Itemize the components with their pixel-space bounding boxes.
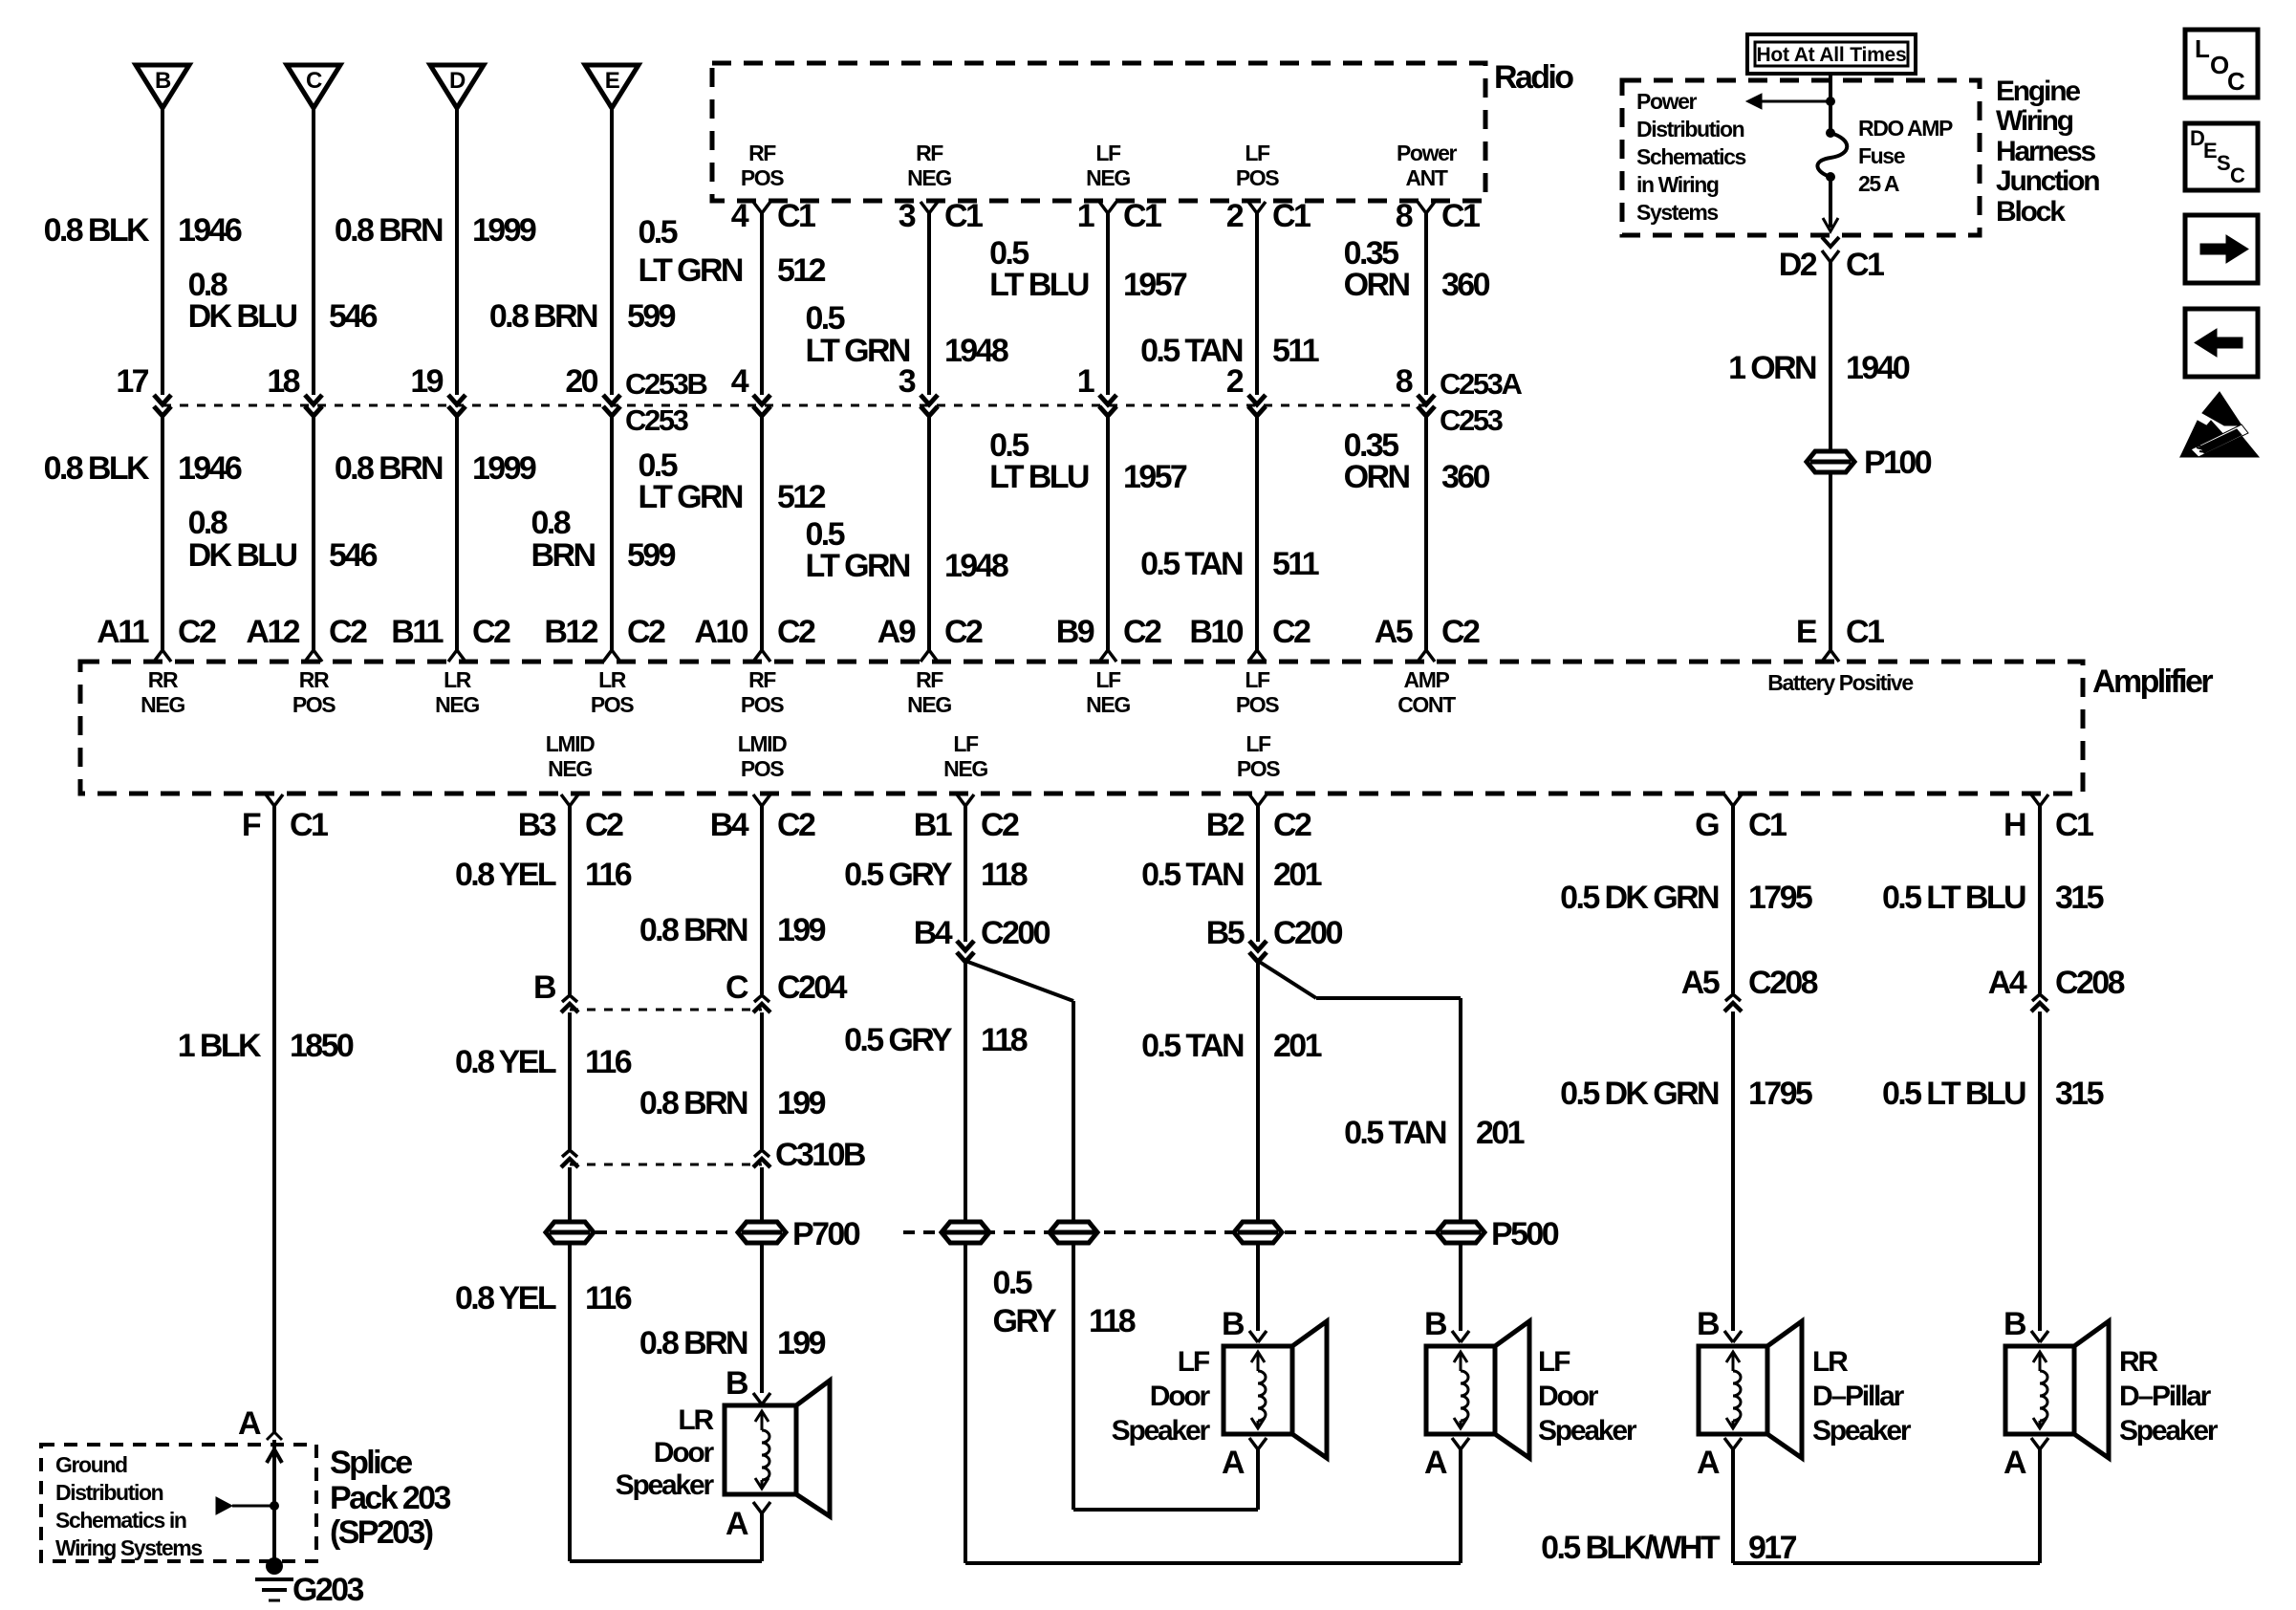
amplifier pin label AMP CONT [1397, 667, 1456, 717]
svg-text:0.8 BRN: 0.8 BRN [639, 1325, 747, 1361]
amplifier box [80, 662, 2083, 794]
svg-text:LT GRN: LT GRN [805, 548, 909, 584]
svg-text:POS: POS [292, 692, 336, 717]
wire label 0.5 TAN 511 [1140, 546, 1319, 582]
speaker label LF Door Speaker [1538, 1346, 1637, 1447]
svg-text:Speaker: Speaker [2119, 1415, 2219, 1447]
svg-text:NEG: NEG [141, 692, 184, 717]
antenna connector B [136, 65, 189, 108]
amplifier pin label LMID POS [738, 731, 787, 781]
wire label 0.5 TAN 201 [1141, 1028, 1321, 1064]
svg-text:Battery Positive: Battery Positive [1767, 670, 1913, 695]
svg-text:DK BLU: DK BLU [188, 298, 297, 335]
svg-text:18: 18 [267, 363, 299, 400]
svg-text:2: 2 [1226, 363, 1244, 400]
svg-text:RR: RR [2119, 1346, 2158, 1378]
svg-text:Radio: Radio [1494, 59, 1573, 96]
svg-text:A: A [238, 1405, 261, 1442]
svg-text:Fuse: Fuse [1858, 143, 1905, 168]
svg-text:E: E [2203, 139, 2217, 163]
svg-text:B10: B10 [1189, 614, 1243, 650]
svg-text:C200: C200 [981, 915, 1051, 951]
svg-text:0.5 DK GRN: 0.5 DK GRN [1560, 880, 1719, 916]
wire LF NEG from C253 to amplifier [1106, 415, 1110, 650]
radio pin 4 C1 [731, 198, 815, 234]
svg-text:3: 3 [899, 198, 916, 234]
svg-text:C2: C2 [777, 807, 815, 843]
speaker LF door 1 [1224, 1321, 1327, 1458]
amplifier pin A10 C2 [694, 614, 815, 662]
amplifier pin A9 C2 [877, 614, 983, 662]
svg-text:0.5 LT BLU: 0.5 LT BLU [1882, 1076, 2025, 1112]
wire from connector B to C253 [161, 108, 164, 395]
svg-text:199: 199 [777, 1325, 826, 1361]
wire from radio pin 3 to C253 [927, 213, 931, 395]
amplifier pin B4 C2 [710, 794, 815, 843]
svg-text:A10: A10 [694, 614, 747, 650]
svg-text:B: B [2004, 1306, 2026, 1342]
svg-text:C1: C1 [777, 198, 815, 234]
svg-text:H: H [2004, 807, 2025, 843]
svg-text:Splice: Splice [330, 1445, 412, 1481]
engine junction block title [1996, 76, 2099, 228]
arrow to ground distribution [216, 1497, 274, 1514]
connector C253 cavity 2 [1226, 363, 1266, 416]
connector C208 cavity A4 [1988, 965, 2125, 1012]
wire RF NEG from C253 to amplifier [927, 415, 931, 650]
svg-text:B2: B2 [1206, 807, 1245, 843]
svg-text:C2: C2 [944, 614, 983, 650]
svg-text:NEG: NEG [943, 756, 987, 781]
radio title [1494, 59, 1573, 96]
svg-text:C200: C200 [1273, 915, 1343, 951]
wire E from C253 to amplifier [610, 415, 614, 650]
grommet P700 [738, 1216, 860, 1252]
svg-text:D–Pillar: D–Pillar [1812, 1381, 1905, 1412]
svg-text:0.5 TAN: 0.5 TAN [1140, 546, 1243, 582]
svg-text:0.8 BRN: 0.8 BRN [489, 298, 597, 335]
wire 0.5 GRY 118 amp to C200 [964, 806, 967, 942]
svg-text:0.5 TAN: 0.5 TAN [1344, 1115, 1446, 1151]
amplifier pin label LR POS [591, 667, 634, 717]
amplifier pin label RF NEG [907, 667, 951, 717]
svg-text:1946: 1946 [178, 450, 242, 487]
radio pin 1 C1 [1077, 198, 1161, 234]
amplifier pin B2 C2 [1206, 794, 1311, 843]
svg-text:A5: A5 [1375, 614, 1413, 650]
speaker pin B [1222, 1306, 1267, 1342]
wire from connector D to C253 [455, 108, 459, 395]
svg-text:Pack 203: Pack 203 [330, 1480, 450, 1516]
svg-text:NEG: NEG [1086, 165, 1130, 190]
connector C208 cavity A5 [1681, 965, 1818, 1012]
svg-text:C204: C204 [777, 969, 848, 1006]
speaker label LF Door Speaker [1112, 1346, 1211, 1447]
wire LR door speaker return bus [570, 1559, 762, 1563]
svg-text:RF: RF [916, 667, 943, 692]
wire from connector C to C253 [312, 108, 315, 395]
icon arrow right [2185, 215, 2258, 283]
svg-text:LF: LF [1095, 667, 1121, 692]
radio pin 8 C1 [1396, 198, 1480, 234]
wire label 0.5 LT BLU 1957 [989, 235, 1187, 303]
svg-text:C1: C1 [2055, 807, 2093, 843]
svg-text:ANT: ANT [1405, 165, 1447, 190]
connector C253 cavity 20 [565, 363, 620, 416]
svg-text:3: 3 [899, 363, 916, 400]
wire label 0.5 BLK/WHT 917 [1541, 1530, 1796, 1566]
svg-text:Power: Power [1397, 141, 1457, 165]
wire label 0.8 YEL 116 [455, 1280, 632, 1316]
svg-text:0.5: 0.5 [993, 1265, 1032, 1301]
wire 0.5 DK GRN 1795 C208 to speaker [1731, 1012, 1735, 1331]
svg-text:B5: B5 [1206, 915, 1245, 951]
svg-text:NEG: NEG [1086, 692, 1130, 717]
grommet P500 d [1437, 1216, 1559, 1252]
svg-text:ORN: ORN [1344, 267, 1410, 303]
svg-text:4: 4 [731, 363, 749, 400]
svg-text:LR: LR [678, 1404, 714, 1436]
wire label 0.8 BRN 1999 [335, 212, 536, 249]
wire 0.8 YEL 116 amp to C204 [568, 806, 572, 994]
pass-through dashed line P700 [596, 1230, 736, 1234]
svg-text:BRN: BRN [531, 537, 596, 574]
svg-text:A: A [1222, 1445, 1245, 1481]
svg-text:0.8: 0.8 [531, 505, 571, 541]
svg-text:LT BLU: LT BLU [989, 459, 1089, 495]
svg-text:RF: RF [748, 141, 776, 165]
svg-text:LT GRN: LT GRN [638, 252, 742, 289]
svg-text:LF: LF [1095, 141, 1121, 165]
wire into splice pack [267, 1440, 282, 1566]
svg-text:512: 512 [777, 479, 826, 515]
svg-text:C2: C2 [1123, 614, 1161, 650]
wire 0.5 LT BLU 315 C208 to speaker [2038, 1012, 2042, 1331]
svg-text:1: 1 [1077, 198, 1094, 234]
speaker pin A [726, 1502, 770, 1542]
svg-text:RF: RF [916, 141, 943, 165]
svg-text:0.8 BRN: 0.8 BRN [639, 1085, 747, 1121]
svg-text:C1: C1 [290, 807, 328, 843]
connector C204 cavity B [533, 969, 578, 1012]
svg-text:A: A [2004, 1445, 2026, 1481]
amplifier pin label LF POS [1237, 731, 1280, 781]
wire hot feed [1829, 74, 1832, 133]
svg-text:Wiring Systems: Wiring Systems [55, 1535, 202, 1560]
wire B from C253 to amplifier [161, 415, 164, 650]
amplifier pin label RF POS [741, 667, 784, 717]
svg-text:A: A [1697, 1445, 1720, 1481]
svg-text:Door: Door [1538, 1381, 1599, 1412]
wire label 0.5 GRY 118 [844, 1022, 1028, 1058]
svg-text:POS: POS [1236, 165, 1279, 190]
svg-text:1 BLK: 1 BLK [178, 1028, 262, 1064]
amplifier pin B12 C2 [544, 614, 665, 662]
svg-text:A5: A5 [1681, 965, 1720, 1001]
svg-text:8: 8 [1396, 363, 1413, 400]
svg-text:0.5 LT BLU: 0.5 LT BLU [1882, 880, 2025, 916]
wire RF POS from C253 to amplifier [760, 415, 764, 650]
svg-text:C253: C253 [1440, 403, 1504, 437]
speaker pin A [1697, 1438, 1742, 1481]
splice pack label Splice Pack 203 (SP203) [330, 1445, 450, 1551]
svg-text:C: C [2227, 67, 2245, 96]
svg-text:360: 360 [1441, 267, 1490, 303]
wire speaker A to bus [1459, 1449, 1462, 1563]
wire from radio pin 4 to C253 [760, 213, 764, 395]
svg-text:A12: A12 [246, 614, 299, 650]
svg-text:LF: LF [1538, 1346, 1570, 1378]
wire label 0.5 GRY 118 [844, 857, 1028, 893]
svg-text:C2: C2 [329, 614, 367, 650]
svg-text:0.8 BRN: 0.8 BRN [639, 912, 747, 948]
wire C from C253 to amplifier [312, 415, 315, 650]
svg-text:E: E [1796, 614, 1817, 650]
amplifier pin label LMID NEG [546, 731, 595, 781]
wire label 0.5 LT BLU 1957 [989, 427, 1187, 495]
wire LF door speaker return bus [1073, 1508, 1258, 1512]
connector label C253B / C253 [625, 367, 707, 437]
wire label 0.8 BRN 1999 [335, 450, 536, 487]
svg-text:LF: LF [953, 731, 979, 756]
svg-text:0.5 GRY: 0.5 GRY [844, 857, 953, 893]
ground G203 [255, 1557, 363, 1608]
svg-text:C2: C2 [627, 614, 665, 650]
svg-text:118: 118 [981, 1022, 1028, 1058]
svg-text:G: G [1695, 807, 1719, 843]
engine wiring harness junction block box [1622, 80, 1980, 235]
svg-text:B: B [155, 68, 171, 94]
svg-text:1: 1 [1077, 363, 1094, 400]
svg-text:C1: C1 [1272, 198, 1310, 234]
svg-text:917: 917 [1748, 1530, 1797, 1566]
wire from radio pin 8 to C253 [1424, 213, 1428, 395]
svg-text:0.5 DK GRN: 0.5 DK GRN [1560, 1076, 1719, 1112]
svg-text:C1: C1 [1748, 807, 1787, 843]
svg-text:1957: 1957 [1123, 267, 1187, 303]
svg-text:LT BLU: LT BLU [989, 267, 1089, 303]
svg-text:B: B [1424, 1306, 1447, 1342]
svg-text:ORN: ORN [1344, 459, 1410, 495]
speaker pin A [1222, 1438, 1267, 1481]
connector C310B cavity [753, 1137, 866, 1173]
svg-text:Junction: Junction [1996, 165, 2099, 197]
svg-text:Systems: Systems [1636, 200, 1718, 225]
svg-text:RF: RF [748, 667, 776, 692]
wire 0.8 YEL 116 to speaker return bus [568, 1167, 572, 1561]
amplifier pin H C1 [2004, 794, 2093, 843]
svg-text:B3: B3 [518, 807, 556, 843]
svg-text:AMP: AMP [1404, 667, 1450, 692]
wire from radio pin 2 to C253 [1255, 213, 1259, 395]
svg-text:C2: C2 [1273, 807, 1311, 843]
svg-text:4: 4 [731, 198, 749, 234]
svg-text:0.8 YEL: 0.8 YEL [455, 1280, 556, 1316]
svg-text:0.8 BRN: 0.8 BRN [335, 212, 443, 249]
icon arrow left [2185, 309, 2258, 377]
svg-text:POS: POS [741, 692, 784, 717]
wire branch 0.5 GRY 118 diagonal [965, 961, 1073, 1510]
wire label 0.5 LT GRN 1948 [805, 516, 1007, 584]
wire label 0.5 TAN 201 [1344, 1115, 1524, 1151]
svg-text:0.8 BRN: 0.8 BRN [335, 450, 443, 487]
svg-text:NEG: NEG [907, 692, 951, 717]
svg-text:0.5 GRY: 0.5 GRY [844, 1022, 953, 1058]
speaker RR D-pillar [2005, 1321, 2109, 1458]
wire label 0.8 BRN 199 [639, 912, 826, 948]
svg-text:1850: 1850 [290, 1028, 354, 1064]
wire LF2 door speaker return bus [965, 1561, 1461, 1565]
svg-text:1795: 1795 [1748, 1076, 1812, 1112]
svg-text:C: C [726, 969, 748, 1006]
svg-text:LR: LR [444, 667, 472, 692]
wire label 0.8 BRN 199 [639, 1085, 826, 1121]
svg-text:8: 8 [1396, 198, 1413, 234]
svg-text:201: 201 [1273, 1028, 1322, 1064]
svg-text:Block: Block [1996, 196, 2066, 228]
wire label 1 ORN 1940 [1728, 350, 1910, 386]
svg-text:512: 512 [777, 252, 826, 289]
svg-text:LF: LF [1245, 141, 1270, 165]
connector C204 dashed line [570, 1009, 762, 1012]
svg-text:Distribution: Distribution [1636, 117, 1744, 141]
svg-text:GRY: GRY [993, 1303, 1058, 1339]
connector C253 cavity 18 [267, 363, 322, 416]
svg-text:LR: LR [598, 667, 627, 692]
svg-text:F: F [242, 807, 261, 843]
svg-text:D: D [449, 68, 466, 94]
svg-text:NEG: NEG [435, 692, 479, 717]
svg-text:(SP203): (SP203) [330, 1514, 433, 1551]
amplifier pin F C1 [242, 794, 328, 843]
svg-text:in Wiring: in Wiring [1636, 172, 1719, 197]
svg-text:B: B [1697, 1306, 1720, 1342]
svg-text:315: 315 [2055, 1076, 2104, 1112]
icon DESC [2185, 123, 2258, 190]
amplifier pin B3 C2 [518, 794, 623, 843]
svg-text:118: 118 [1089, 1303, 1136, 1339]
amplifier pin label LF NEG [1086, 667, 1130, 717]
svg-text:LF: LF [1245, 667, 1270, 692]
wire 0.5 TAN 201 amp to C200 [1256, 806, 1260, 942]
svg-text:NEG: NEG [548, 756, 592, 781]
svg-text:0.8 BLK: 0.8 BLK [44, 212, 150, 249]
svg-text:LF: LF [1178, 1346, 1210, 1378]
power label Hot At All Times [1747, 34, 1916, 74]
wire label 0.5 LT GRN 1948 [805, 300, 1007, 369]
svg-text:0.5 TAN: 0.5 TAN [1141, 857, 1244, 893]
svg-text:P100: P100 [1864, 445, 1932, 481]
wire 0.8 BRN 199 to LR door speaker [760, 1167, 764, 1393]
svg-text:0.8 YEL: 0.8 YEL [455, 1044, 556, 1080]
svg-text:0.5 TAN: 0.5 TAN [1141, 1028, 1244, 1064]
wire label 0.8 BLK 1946 [44, 450, 242, 487]
amplifier pin A12 C2 [246, 614, 367, 662]
connector C253 cavity 4 [731, 363, 770, 416]
svg-text:RR: RR [148, 667, 179, 692]
svg-text:C1: C1 [944, 198, 983, 234]
svg-text:C1: C1 [1846, 247, 1884, 283]
wire label 0.35 ORN 360 [1344, 235, 1490, 303]
svg-text:1940: 1940 [1846, 350, 1910, 386]
svg-text:116: 116 [585, 1280, 632, 1316]
amplifier pin label RR NEG [141, 667, 184, 717]
svg-text:599: 599 [627, 537, 676, 574]
svg-text:B11: B11 [391, 614, 443, 650]
wire from connector E to C253 [610, 108, 614, 395]
wire label 0.8 BRN 599 [489, 298, 676, 335]
antenna connector D [430, 65, 484, 108]
wire label 0.5 LT BLU 315 [1882, 880, 2104, 916]
wire speaker A to bus [1256, 1449, 1260, 1510]
svg-text:Engine: Engine [1996, 76, 2080, 107]
svg-text:20: 20 [565, 363, 597, 400]
svg-text:0.8: 0.8 [188, 505, 227, 541]
svg-text:Schematics in: Schematics in [55, 1508, 186, 1533]
svg-text:C1: C1 [1846, 614, 1884, 650]
svg-text:Amplifier: Amplifier [2092, 664, 2213, 700]
wire label 0.8 YEL 116 [455, 857, 632, 893]
svg-text:C2: C2 [585, 807, 623, 843]
wire 0.5 BLK/WHT 917 [1733, 1449, 2040, 1563]
amplifier pin label LF NEG [943, 731, 987, 781]
svg-text:D2: D2 [1779, 247, 1817, 283]
svg-text:1999: 1999 [472, 212, 536, 249]
svg-text:360: 360 [1441, 459, 1490, 495]
svg-text:S: S [2217, 151, 2230, 175]
connector C253 dashed line [162, 404, 1426, 407]
svg-text:201: 201 [1476, 1115, 1525, 1151]
amplifier pin G C1 [1695, 794, 1787, 843]
svg-text:1948: 1948 [944, 548, 1008, 584]
svg-text:A: A [1424, 1445, 1447, 1481]
svg-text:B1: B1 [914, 807, 952, 843]
svg-text:A: A [726, 1506, 748, 1542]
svg-text:E: E [605, 68, 620, 94]
connector C253 cavity 1 [1077, 363, 1116, 416]
svg-text:199: 199 [777, 912, 826, 948]
note ground distribution schematics [55, 1452, 202, 1560]
svg-text:C2: C2 [1272, 614, 1310, 650]
grommet P500 a [942, 1222, 989, 1243]
svg-text:RR: RR [299, 667, 330, 692]
grommet P100 [1807, 445, 1932, 481]
grommet P500 b [1050, 1222, 1097, 1243]
svg-text:LT GRN: LT GRN [805, 333, 909, 369]
ground distribution box [41, 1445, 316, 1561]
svg-text:Harness: Harness [1996, 136, 2096, 167]
svg-text:0.5 BLK/WHT: 0.5 BLK/WHT [1541, 1530, 1721, 1566]
amplifier pin A5 C2 [1375, 614, 1480, 662]
radio pin 3 C1 [899, 198, 983, 234]
svg-text:1957: 1957 [1123, 459, 1187, 495]
svg-text:199: 199 [777, 1085, 826, 1121]
wire 0.8 BRN 199 amp to C204 [760, 806, 764, 994]
speaker label RR D-Pillar Speaker [2119, 1346, 2219, 1447]
radio pin label LF POS [1236, 141, 1279, 190]
svg-text:B: B [1222, 1306, 1245, 1342]
speaker pin B [1697, 1306, 1742, 1342]
svg-text:511: 511 [1272, 333, 1319, 369]
amplifier pin label Battery Positive [1767, 670, 1913, 695]
connector C253 cavity 8 [1396, 363, 1435, 416]
wire label 0.8 YEL 116 [455, 1044, 632, 1080]
radio pin label RF NEG [907, 141, 951, 190]
wire label 0.5 LT BLU 315 [1882, 1076, 2104, 1112]
amplifier pin B1 C2 [914, 794, 1019, 843]
wire label 0.5 LT GRN 512 [638, 447, 825, 515]
svg-text:B4: B4 [710, 807, 749, 843]
